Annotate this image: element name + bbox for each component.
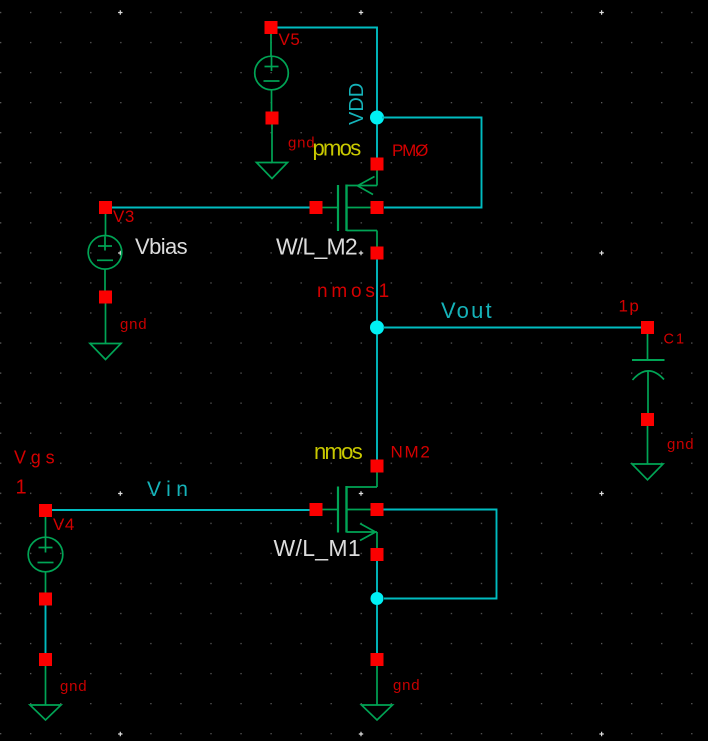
- svg-text:V5: V5: [279, 30, 301, 49]
- wire (VDD to PM0 bulk loop): [382, 118, 482, 208]
- pin square V4 plus: [39, 504, 52, 517]
- svg-text:1: 1: [16, 477, 27, 499]
- svg-text:V3: V3: [113, 207, 135, 226]
- wire (V3 to PM0 gate): [112, 207, 310, 209]
- wire (V4 minus to gnd): [45, 606, 47, 654]
- pin square NM2 bulk: [371, 503, 384, 516]
- pin square PM0 gate: [310, 201, 323, 214]
- wire (Vout node to C1): [383, 327, 642, 329]
- svg-text:1p: 1p: [619, 297, 641, 316]
- svg-text:nmos: nmos: [314, 439, 363, 464]
- pin square NM2 gate: [310, 503, 323, 516]
- pin square C1 bottom: [641, 413, 654, 426]
- pin square NM2 source: [371, 548, 384, 561]
- svg-text:V4: V4: [53, 515, 75, 534]
- ground (under C1): [632, 426, 663, 480]
- svg-text:NM2: NM2: [391, 443, 432, 462]
- pin square V3 plus: [99, 201, 112, 214]
- pin square NM2 drain: [371, 460, 384, 473]
- svg-text:Vgs: Vgs: [14, 448, 59, 468]
- ground (under V4): [30, 666, 61, 720]
- svg-text:gnd: gnd: [393, 677, 420, 694]
- pin square V5 minus: [266, 112, 279, 125]
- wire (VDD node to PM0 source): [376, 125, 378, 159]
- wire (node to gnd): [376, 605, 378, 654]
- pin square PM0 source: [371, 158, 384, 171]
- pin square gnd NM2: [371, 653, 384, 666]
- ground (under NM2): [362, 666, 393, 720]
- pmos PM0: [322, 171, 377, 248]
- pin square V5 plus: [265, 21, 278, 34]
- wire (NM2 bulk loop): [384, 510, 497, 599]
- svg-text:nmos1: nmos1: [317, 281, 393, 302]
- svg-text:Vbias: Vbias: [135, 234, 188, 259]
- voltage source V5: [255, 34, 289, 112]
- pin square C1 top: [641, 321, 654, 334]
- svg-text:W/L_M1: W/L_M1: [274, 535, 361, 561]
- voltage source V4: [28, 517, 63, 593]
- pin square V4 minus: [39, 593, 52, 606]
- node Vout junction: [370, 321, 384, 335]
- capacitor C1: [632, 334, 665, 413]
- svg-text:Vout: Vout: [441, 298, 494, 323]
- svg-text:C1: C1: [664, 332, 687, 348]
- pin square gnd V4: [39, 653, 52, 666]
- pin square PM0 drain: [371, 247, 384, 260]
- nmos NM2: [323, 473, 378, 549]
- wire (NM2 source to node): [376, 561, 378, 593]
- wire (Vout node to NM2 drain): [376, 335, 378, 461]
- svg-text:Vin: Vin: [147, 478, 193, 501]
- wire: [278, 28, 378, 112]
- svg-text:gnd: gnd: [60, 678, 87, 695]
- svg-text:W/L_M2: W/L_M2: [276, 234, 357, 260]
- pin square PM0 bulk: [371, 201, 384, 214]
- svg-text:PMØ: PMØ: [392, 141, 428, 160]
- ground (under V3): [90, 304, 121, 360]
- ground (under V5): [257, 125, 288, 179]
- node VDD junction: [370, 111, 384, 125]
- svg-text:gnd: gnd: [120, 316, 147, 333]
- voltage source V3: [88, 214, 122, 291]
- wire (V4 to NM2 gate): [52, 509, 310, 511]
- svg-text:VDD: VDD: [346, 83, 368, 125]
- svg-text:pmos: pmos: [313, 136, 362, 161]
- wire (PM0 drain to Vout node): [376, 260, 378, 323]
- node NM2 source junction: [371, 592, 384, 605]
- svg-text:gnd: gnd: [288, 135, 315, 152]
- pin square V3 minus: [99, 291, 112, 304]
- svg-text:gnd: gnd: [667, 436, 694, 453]
